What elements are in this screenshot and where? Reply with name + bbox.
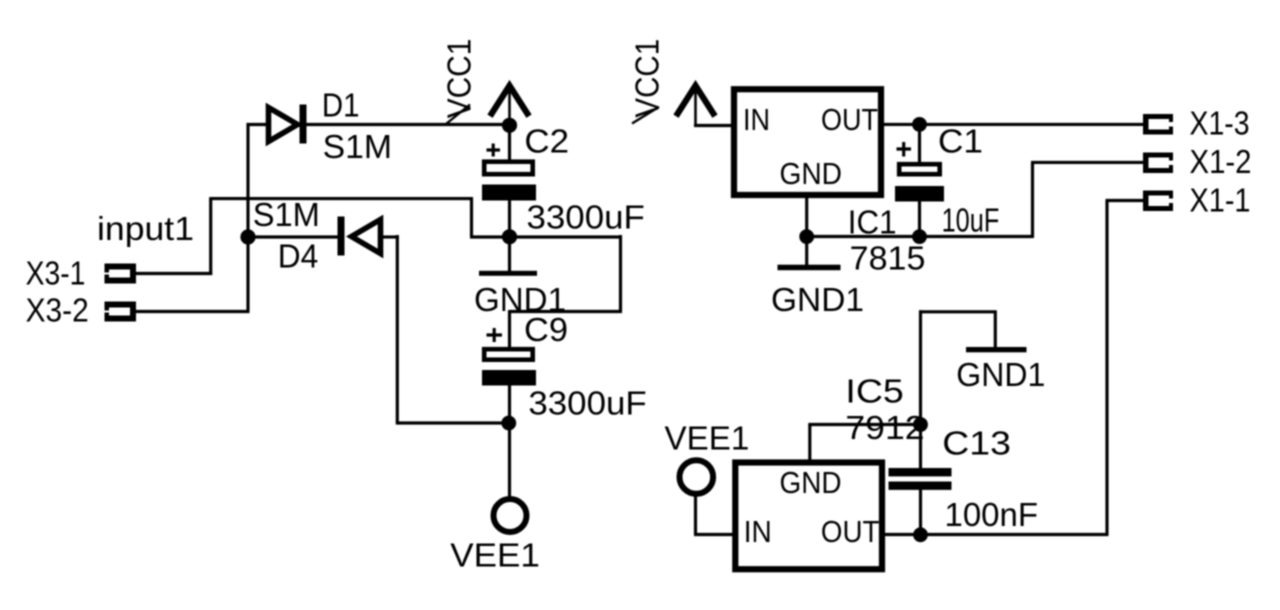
svg-text:D1: D1 (322, 87, 360, 124)
connector X3-2 (105, 302, 137, 322)
wire IC5 OUT row (883, 533, 1109, 536)
VCC1 arrow 1 chevron (490, 86, 529, 117)
svg-text:VEE1: VEE1 (665, 420, 750, 457)
svg-text:GND1: GND1 (956, 356, 1045, 393)
wire IC5 IN (694, 533, 733, 536)
svg-text:C1: C1 (938, 123, 983, 160)
wire node to GND1 bar (508, 237, 511, 272)
connector X3-1 (105, 264, 137, 284)
supply VEE1 circle right (680, 460, 714, 494)
junction VCC1 node (502, 118, 517, 133)
svg-text:3300uF: 3300uF (528, 384, 646, 421)
svg-text:C2: C2 (524, 122, 569, 159)
wire X1-1 long drop (1105, 201, 1108, 535)
wire y=311.5 to C9 top (510, 310, 623, 313)
IC5 7912 box (735, 463, 882, 570)
wire C2 to node (508, 199, 511, 237)
supply VEE1 circle left (494, 499, 527, 532)
wire X3-1 riser (209, 199, 212, 275)
wire drop x=471.5 (470, 197, 473, 237)
svg-text:X1-3: X1-3 (1190, 105, 1250, 142)
svg-text:GND: GND (780, 156, 843, 191)
wire GND row y=236.5 (807, 235, 1033, 238)
wire X1-2 horizontal (1031, 161, 1144, 164)
junction C1 bottom node (912, 229, 927, 244)
junction IC1 GND node (799, 229, 814, 244)
svg-text:C9: C9 (524, 311, 568, 348)
wire X3-1 horizontal (136, 272, 212, 275)
wire VCC1 node to C2 (508, 125, 511, 162)
wire IC5 GND riser (808, 425, 811, 462)
wire D4 to C9 bottom node (396, 421, 510, 424)
diode D1 (269, 105, 307, 144)
wire vertical input bus (246, 123, 249, 312)
wire D1 anode stub (247, 123, 267, 126)
wire row y=199 (209, 197, 473, 200)
wire GND1 right loop top (919, 310, 995, 313)
junction C13 top node (913, 417, 928, 432)
svg-text:OUT: OUT (821, 102, 878, 137)
svg-text:7815: 7815 (850, 240, 926, 277)
junction VEE1 node left (501, 416, 516, 431)
wire IC1 GND pin to bar (805, 197, 808, 266)
capacitor C1 (895, 142, 944, 202)
wire C9 top feed (508, 310, 511, 349)
wire C13 column upper (919, 310, 922, 469)
junction GND1 node left (502, 229, 517, 244)
svg-text:GND: GND (780, 465, 842, 500)
svg-text:VCC1: VCC1 (441, 39, 478, 119)
svg-text:VEE1: VEE1 (450, 537, 540, 574)
ground GND1 bar mid (778, 265, 841, 271)
capacitor C13 (889, 468, 952, 490)
wire D1 cathode to VCC1 node (305, 123, 510, 126)
wire row y=236.5 center (470, 235, 621, 238)
junction IC5 OUT node (913, 527, 928, 542)
svg-text:OUT: OUT (821, 514, 880, 549)
connector X1-3 (1143, 114, 1173, 135)
wire GND1 right drop (994, 310, 997, 348)
wire C13 column lower (919, 489, 922, 535)
diode D4 (338, 217, 381, 256)
svg-text:10uF: 10uF (942, 202, 1000, 239)
svg-text:VCC1: VCC1 (629, 39, 666, 118)
wire drop x=620.5 (619, 235, 622, 312)
wire X1-2 riser (1031, 162, 1034, 238)
wire IC1 OUT row to X1-3 (883, 123, 1144, 126)
wire C1 bottom (918, 200, 921, 237)
svg-text:S1M: S1M (253, 196, 320, 233)
svg-text:X1-2: X1-2 (1190, 143, 1252, 180)
svg-text:X1-1: X1-1 (1190, 182, 1251, 219)
svg-text:X3-1: X3-1 (26, 254, 86, 291)
junction C1 top node (912, 117, 927, 132)
svg-text:IC1: IC1 (848, 204, 897, 241)
svg-text:IC5: IC5 (845, 373, 903, 410)
wire X3-2 to bus (136, 310, 250, 313)
VCC1 arrow 2 shaft (694, 87, 697, 126)
junction input1 node (240, 229, 255, 244)
ground GND1 bar right (966, 347, 1027, 352)
net label tail VCC1-1 (446, 105, 470, 125)
svg-text:D4: D4 (278, 237, 319, 274)
ground GND1 bar left (479, 271, 537, 276)
wire D4 drop (396, 235, 399, 423)
wire 7912 row (808, 423, 920, 426)
svg-text:GND1: GND1 (771, 281, 864, 318)
svg-text:input1: input1 (97, 210, 194, 247)
svg-text:3300uF: 3300uF (527, 198, 645, 235)
svg-text:S1M: S1M (323, 128, 392, 165)
VCC1 arrow 1 shaft (508, 87, 511, 125)
wire C9 bottom to VEE1 (508, 384, 511, 499)
wire D4 anode stub (383, 235, 399, 238)
svg-text:100nF: 100nF (945, 496, 1039, 533)
wire IC1 IN (694, 124, 732, 127)
IC1 7815 box (734, 89, 881, 195)
capacitor C2 (482, 144, 536, 201)
svg-text:X3-2: X3-2 (26, 291, 89, 328)
connector X1-2 (1143, 153, 1173, 174)
wire X1-1 horizontal (1106, 199, 1145, 202)
capacitor C9 (482, 328, 536, 386)
wire VEE1 circle to IN row (694, 495, 697, 535)
svg-text:IN: IN (743, 102, 770, 137)
VCC1 arrow 2 chevron (676, 86, 715, 117)
connector X1-1 (1143, 191, 1173, 212)
net label tail VCC1-2 (632, 107, 659, 124)
svg-text:IN: IN (744, 514, 772, 549)
svg-text:C13: C13 (942, 425, 1011, 462)
wire node to D4 cathode (248, 235, 339, 238)
wire C1 top (918, 124, 921, 163)
svg-text:7912: 7912 (845, 409, 924, 446)
